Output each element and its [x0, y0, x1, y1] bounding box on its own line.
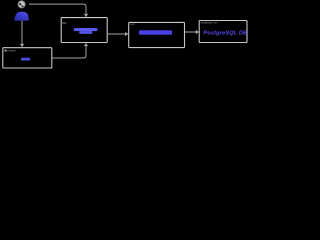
wire actor to Box2 (top) — [29, 4, 86, 14]
svg-text:api: api — [130, 22, 135, 26]
actor User: head — [18, 1, 25, 8]
Box2 node — [61, 18, 107, 43]
svg-text:browser: browser — [7, 49, 16, 53]
arrowhead into Box1 top — [20, 44, 24, 48]
Box4 container — [199, 21, 247, 43]
wire Box1 to Box2 (right then up) — [52, 47, 86, 58]
Box2 purple text line1 — [74, 28, 98, 31]
svg-text:PostgreSQL DB: PostgreSQL DB — [203, 30, 247, 36]
svg-text:database srv: database srv — [201, 21, 219, 25]
Box1 corner label — [5, 50, 7, 52]
Box3 purple bar — [139, 30, 172, 35]
wire Box2 to Box3 — [107, 33, 125, 35]
Box1 purple label — [21, 58, 30, 61]
Box2 corner label — [62, 22, 66, 24]
wire Box3 to Box4 — [185, 31, 196, 33]
Box2 purple text line2 — [79, 31, 92, 34]
Box1 container — [3, 48, 52, 68]
arrowhead into Box4 left — [196, 30, 199, 34]
arrowhead into Box2 top — [84, 14, 88, 18]
arrowhead into Box2 bottom — [84, 43, 88, 46]
Box3 container — [129, 22, 185, 47]
arrowhead into Box3 left — [125, 32, 128, 36]
wire actor to Box1 (down) — [21, 21, 23, 44]
